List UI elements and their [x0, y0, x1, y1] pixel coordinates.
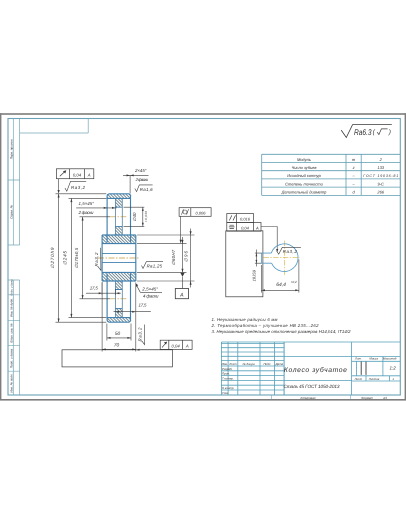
dimension 64.4+0.2: [261, 260, 299, 293]
leader to keyway: [261, 227, 277, 250]
svg-text:Т.контр.: Т.контр.: [222, 376, 234, 380]
svg-text:Сталь 45 ГОСТ 1050-2013: Сталь 45 ГОСТ 1050-2013: [284, 384, 340, 389]
svg-text:Изм.: Изм.: [222, 362, 228, 366]
svg-text:ГОСТ 19036-81: ГОСТ 19036-81: [363, 174, 398, 178]
blank rectangle under view: [62, 350, 172, 367]
contour: web faces: [115, 198, 122, 317]
svg-text:Число зубьев: Число зубьев: [292, 165, 317, 170]
svg-text:Ra3,2: Ra3,2: [283, 249, 298, 254]
Lit cell dark dividers: [361, 362, 366, 375]
svg-text:2×45°: 2×45°: [134, 168, 147, 173]
dimension D245: [69, 198, 107, 317]
dimension 18JS9: [255, 250, 262, 267]
svg-text:50: 50: [115, 331, 121, 337]
hatch: web above upper hole: [115, 198, 122, 207]
svg-text:2 фаски: 2 фаски: [78, 210, 95, 215]
svg-text:+0,2: +0,2: [291, 280, 297, 284]
svg-text:3. Неуказанные предельные откл: 3. Неуказанные предельные отклонения раз…: [212, 329, 352, 334]
svg-text:1:2: 1:2: [389, 366, 396, 371]
svg-text:9-С: 9-С: [377, 181, 384, 186]
drawing frame: [8, 119, 400, 396]
svg-text:∅245: ∅245: [62, 251, 67, 265]
svg-text:): ): [388, 129, 391, 136]
svg-text:Инв. № дубл.: Инв. № дубл.: [9, 298, 13, 317]
svg-text:№ докум.: № докум.: [243, 362, 256, 366]
svg-text:Ra3,2: Ra3,2: [71, 185, 86, 190]
svg-text:0,04: 0,04: [172, 343, 181, 348]
roughness Ra3.2 bore (rotated): [98, 248, 101, 271]
bore circle: [271, 244, 298, 272]
svg-text:17,5: 17,5: [139, 303, 148, 308]
svg-text:0,04: 0,04: [73, 173, 82, 178]
TITLE BLOCK: [221, 342, 400, 395]
svg-text:∅60Н7: ∅60Н7: [171, 249, 176, 265]
svg-text:А: А: [255, 225, 259, 230]
svg-text:∅40: ∅40: [132, 212, 137, 222]
svg-text:1. Неуказанные радиусы 6 мм: 1. Неуказанные радиусы 6 мм: [212, 317, 278, 322]
svg-text:0,04: 0,04: [241, 225, 250, 230]
svg-text:2,5×45°: 2,5×45°: [141, 287, 158, 292]
svg-text:Лист: Лист: [228, 362, 237, 366]
svg-text:Лит.: Лит.: [354, 357, 362, 361]
dimension D170+-0.5: [80, 217, 111, 299]
left margin labels: [9, 139, 13, 393]
svg-text:1,5×45°: 1,5×45°: [79, 201, 95, 206]
keyway slot: [261, 253, 271, 263]
svg-text:Колесо зубчатое: Колесо зубчатое: [284, 367, 347, 374]
centerlines of bore: [284, 241, 286, 275]
svg-text:Подп. и дата: Подп. и дата: [10, 279, 13, 296]
roughness Ra1.25: [142, 262, 164, 269]
svg-text:Подп. и дата: Подп. и дата: [9, 349, 13, 369]
svg-text:0,006: 0,006: [195, 210, 206, 215]
svg-text:2 фаски: 2 фаски: [135, 177, 149, 182]
svg-text:Формат: Формат: [361, 396, 373, 400]
svg-text:Масса: Масса: [369, 357, 378, 361]
svg-text:18JS9: 18JS9: [252, 269, 257, 281]
sheet right edge: [405, 113, 406, 400]
contour: gear rim: [107, 194, 131, 322]
sheet left edge: [0, 113, 1, 400]
dimension D96: [137, 229, 195, 288]
hatch: web below lower hole: [115, 309, 122, 318]
sheet bottom edge: [0, 399, 406, 401]
svg-text:Н.контр.: Н.контр.: [222, 386, 234, 390]
svg-text:Исходный контур: Исходный контур: [287, 173, 321, 178]
svg-text:0,016: 0,016: [240, 216, 251, 221]
svg-text:Масштаб: Масштаб: [383, 357, 397, 361]
hatch: web below upper hole: [115, 227, 122, 235]
svg-text:133: 133: [377, 165, 384, 170]
centerline: gear axis: [98, 257, 140, 259]
hatch: rim top band: [107, 194, 131, 198]
svg-text:А: А: [179, 293, 184, 299]
roughness Ra1.6: [135, 185, 153, 192]
dimension D40 holes: [124, 207, 145, 226]
svg-text:Дата: Дата: [274, 362, 283, 366]
svg-text:Ra6.3: Ra6.3: [354, 128, 372, 137]
top-left designation box: [20, 119, 89, 134]
svg-text:70: 70: [114, 343, 120, 349]
blank rectangle of detail: [226, 231, 263, 297]
dimension D270h9: [56, 194, 107, 322]
sheet top edge: [0, 113, 406, 115]
roughness Ra3.2 rim face (rotated): [141, 325, 144, 345]
svg-text:+0,039: +0,039: [144, 211, 148, 222]
svg-text:Лист: Лист: [354, 377, 363, 381]
svg-text:Ra1,25: Ra1,25: [147, 263, 163, 268]
svg-text:Ra3,2: Ra3,2: [94, 252, 99, 267]
contour: hub: [102, 235, 136, 281]
tolerance frame: parallelism 0.016: [227, 214, 254, 223]
tolerance frame: face runout 0.04/A (bottom): [160, 340, 192, 349]
roughness Ra3.2 upper-left: [65, 181, 86, 191]
svg-text:Степень точности: Степень точности: [285, 181, 323, 186]
svg-text:∅270h9: ∅270h9: [50, 247, 55, 268]
left margin columns: [8, 119, 20, 396]
dimension 70: [102, 283, 136, 352]
roughness Ra3.2 keyway: [277, 247, 301, 254]
datum A flag: [180, 273, 184, 277]
svg-text:∅170±0,5: ∅170±0,5: [74, 247, 79, 268]
svg-text:Ra1,6: Ra1,6: [140, 187, 153, 192]
hatch: hub upper band: [102, 235, 136, 244]
svg-text:2. Термообработка – улучшение: 2. Термообработка – улучшение НВ 235...2…: [211, 323, 320, 328]
svg-text:266: 266: [376, 190, 384, 195]
svg-text:Утв.: Утв.: [222, 391, 229, 395]
centerline: lower hole axis: [110, 298, 126, 300]
svg-text:17,5: 17,5: [90, 285, 99, 290]
svg-text:Перв. примен.: Перв. примен.: [9, 139, 13, 160]
svg-text:Листов: Листов: [368, 377, 380, 381]
svg-text:Разраб.: Разраб.: [222, 367, 233, 371]
svg-text:Делительный диаметр: Делительный диаметр: [281, 190, 328, 195]
tolerance frame: symmetry 0.04/A: [227, 223, 261, 232]
paper sheet: [0, 113, 406, 401]
centerline: upper hole axis: [110, 216, 126, 218]
svg-text:Справ. №: Справ. №: [9, 204, 13, 219]
svg-text:Инв. № подл.: Инв. № подл.: [9, 373, 13, 392]
svg-text:Взам. инв. №: Взам. инв. №: [9, 323, 13, 343]
contour: lightening holes edges: [115, 207, 122, 308]
technical requirements: [211, 317, 352, 334]
svg-text:Копировал: Копировал: [301, 396, 316, 400]
hatch: web below hub: [115, 281, 122, 289]
tolerance frame: cylindricity 0.006: [179, 208, 211, 217]
svg-text:∅96: ∅96: [184, 250, 189, 262]
svg-text:64,4: 64,4: [276, 282, 286, 288]
svg-text:Подп.: Подп.: [263, 362, 271, 366]
svg-text:4 фаски: 4 фаски: [143, 294, 159, 299]
hatch: hub lower band: [102, 272, 136, 281]
footer strip: [272, 395, 351, 399]
svg-text:А: А: [87, 173, 91, 178]
svg-text:z: z: [352, 165, 355, 170]
dimension 50: [107, 324, 131, 341]
dimension D60H7: [137, 237, 187, 272]
svg-text:Пров.: Пров.: [222, 372, 230, 376]
gear parameter table: [262, 154, 401, 195]
tolerance frame: radial runout 0.04/A (top left): [56, 169, 93, 179]
svg-text:Модуль: Модуль: [297, 157, 311, 162]
svg-text:А3: А3: [382, 396, 387, 400]
hatch: rim bottom band: [107, 318, 131, 322]
svg-text:Ra3,2: Ra3,2: [138, 327, 143, 342]
general roughness Ra6.3: [341, 125, 392, 138]
title block texts: [222, 357, 397, 395]
svg-text:А: А: [185, 343, 189, 348]
